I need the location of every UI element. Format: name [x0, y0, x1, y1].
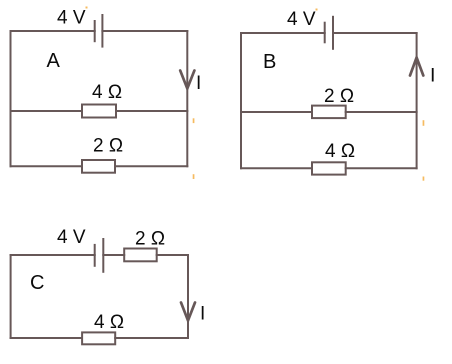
- wire: circuit B middle branch: [241, 111, 417, 113]
- current arrow I down, circuit C: [181, 303, 195, 321]
- resistor 4ohm circuit B bottom: [312, 162, 346, 174]
- svg-text:A: A: [47, 50, 61, 72]
- svg-text:B: B: [263, 51, 276, 73]
- wire: circuit A top side (battery gap): [11, 30, 188, 32]
- wire: circuit C bottom side: [11, 337, 188, 339]
- wire: circuit B right side: [416, 33, 418, 168]
- wire: circuit C top side (battery and resistor gaps): [11, 254, 188, 256]
- current arrow I down, circuit A: [180, 71, 194, 89]
- svg-text:4 Ω: 4 Ω: [92, 82, 122, 103]
- resistor 2ohm circuit C top: [124, 249, 157, 262]
- svg-text:2 Ω: 2 Ω: [93, 136, 123, 157]
- battery 4 V circuit B: [325, 16, 333, 50]
- svg-text:4 Ω: 4 Ω: [94, 312, 124, 333]
- svg-text:I: I: [196, 73, 201, 94]
- svg-text:4 V: 4 V: [57, 8, 86, 29]
- resistor 4ohm circuit C bottom: [82, 332, 115, 344]
- svg-text:4 Ω: 4 Ω: [325, 141, 355, 162]
- svg-text:4 V: 4 V: [57, 227, 86, 248]
- wire: circuit A bottom branch: [11, 165, 188, 167]
- wire: circuit B top side (battery gap): [241, 32, 417, 34]
- svg-text:I: I: [430, 65, 435, 87]
- wire: circuit A left side: [10, 31, 12, 166]
- battery 4 V circuit C: [95, 238, 104, 273]
- wire: circuit C left side: [10, 255, 12, 338]
- svg-text:4 V: 4 V: [287, 9, 316, 30]
- wire: circuit B bottom branch: [241, 167, 417, 169]
- resistor 2ohm circuit B middle: [312, 106, 346, 119]
- svg-text:I: I: [200, 304, 205, 325]
- svg-text:2 Ω: 2 Ω: [135, 229, 165, 250]
- resistor 4ohm circuit A middle: [82, 105, 116, 118]
- wire: circuit C right side: [187, 255, 189, 338]
- wire: circuit B left side: [240, 33, 242, 168]
- resistor 2ohm circuit A bottom: [82, 160, 115, 173]
- current arrow I up, circuit B: [410, 58, 423, 76]
- stray highlight marks: [86, 7, 425, 181]
- wire: circuit A right side: [186, 31, 188, 166]
- battery 4 V circuit A: [95, 14, 103, 48]
- wire: circuit A middle branch: [11, 110, 188, 112]
- svg-text:C: C: [30, 272, 44, 294]
- svg-text:2 Ω: 2 Ω: [324, 86, 354, 107]
